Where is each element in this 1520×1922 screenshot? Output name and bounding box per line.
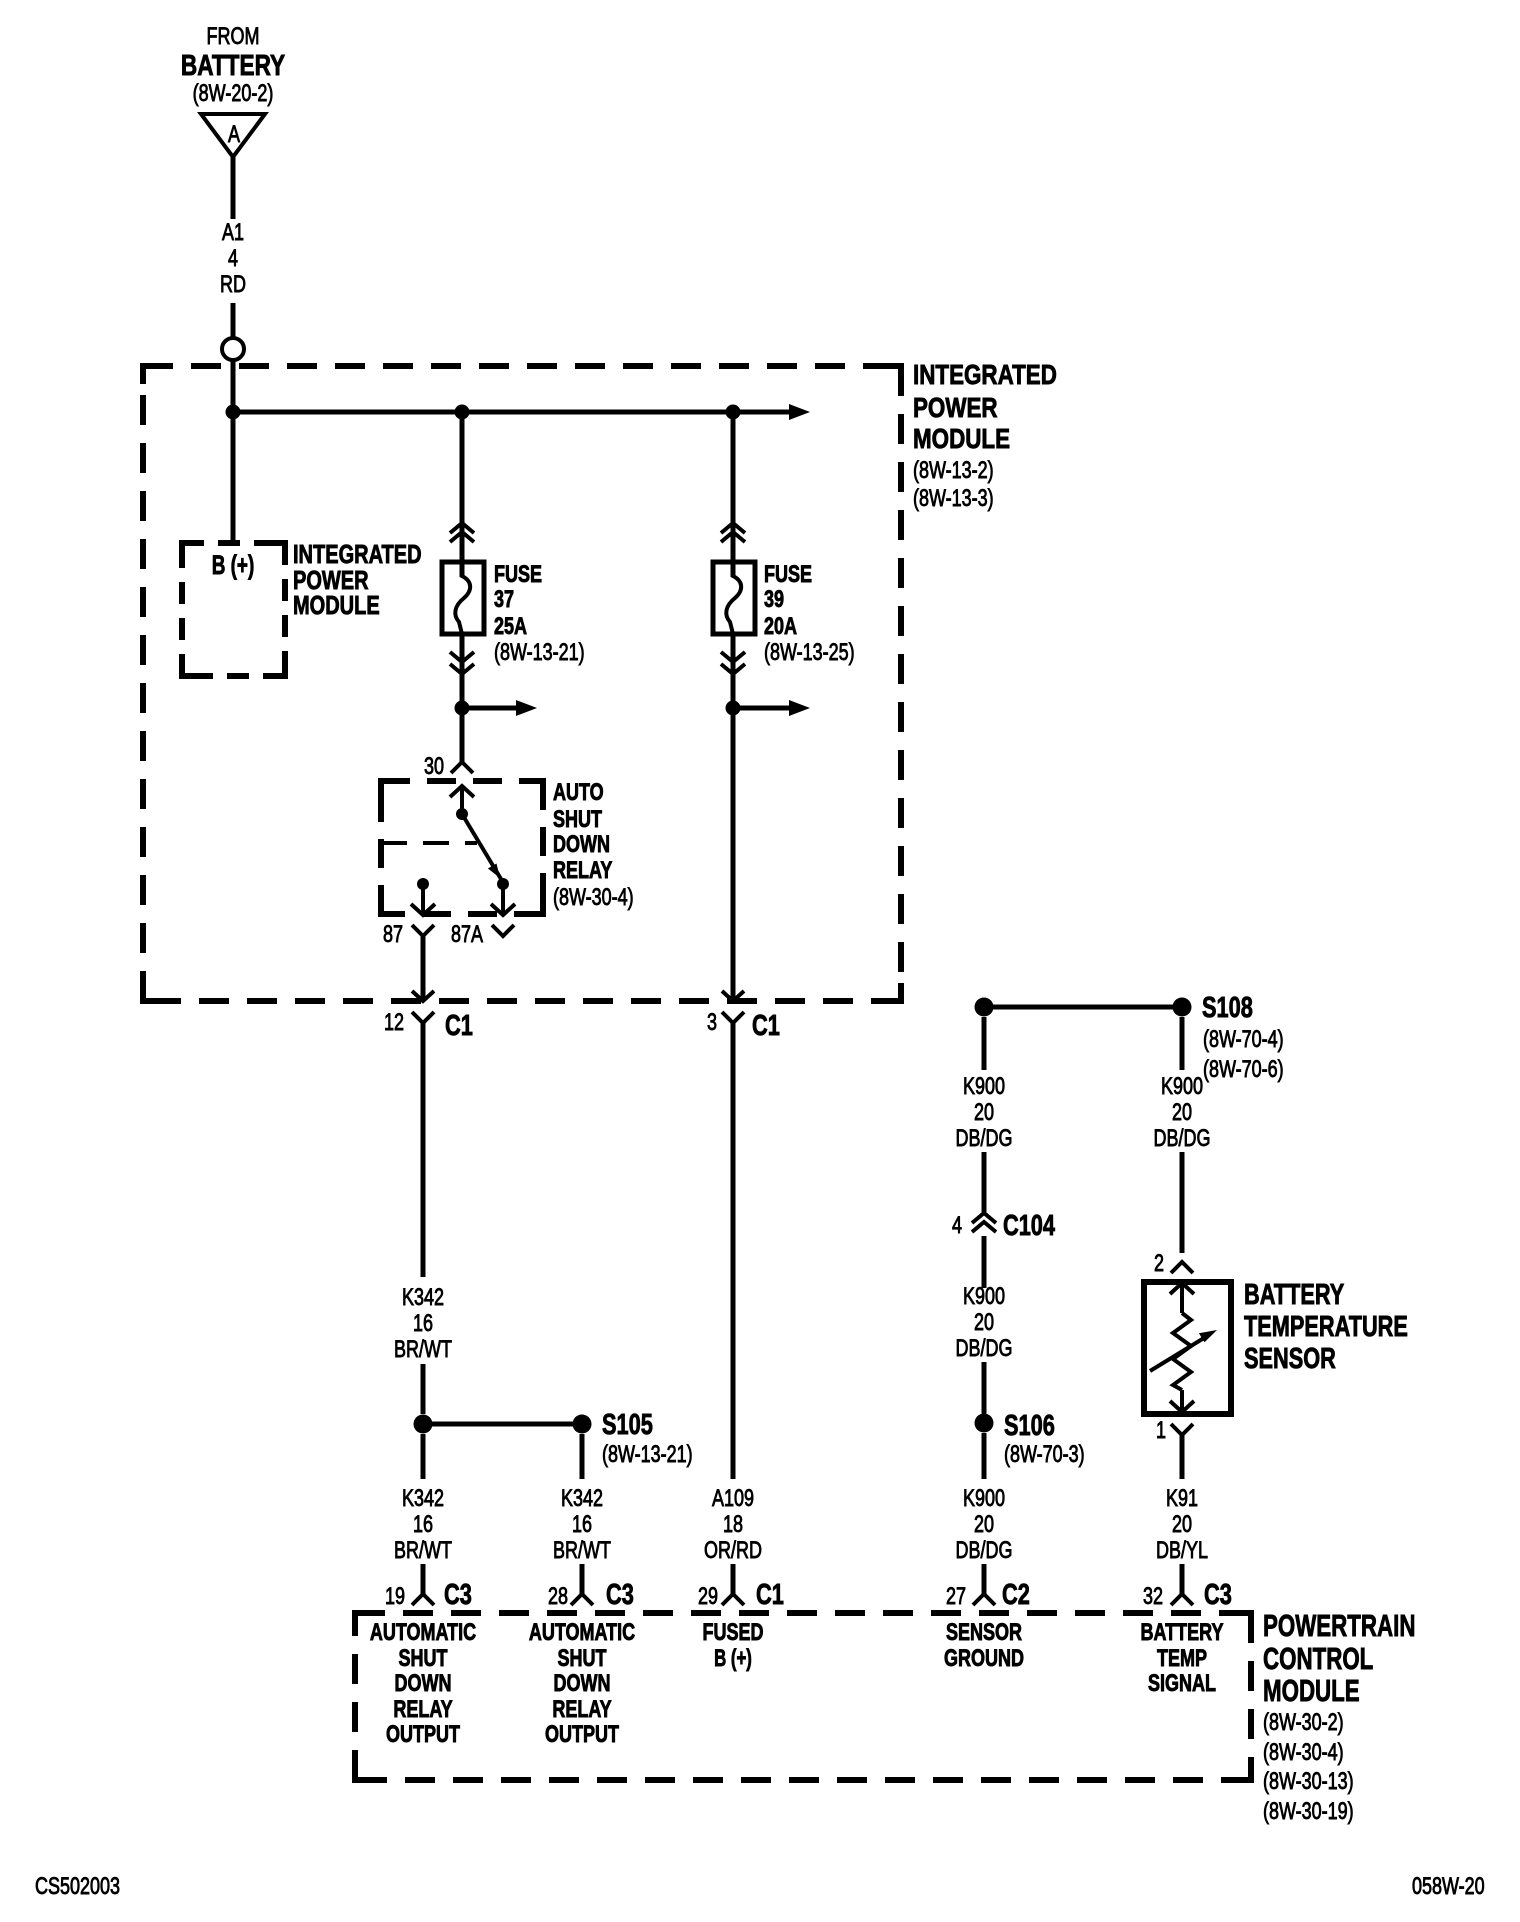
- svg-text:S105: S105: [602, 1409, 653, 1441]
- svg-text:RD: RD: [220, 272, 246, 298]
- svg-text:A1: A1: [222, 220, 244, 246]
- svg-text:(8W-13-3): (8W-13-3): [913, 486, 994, 512]
- svg-text:20: 20: [974, 1512, 994, 1538]
- svg-text:K900: K900: [963, 1284, 1005, 1310]
- svg-text:25A: 25A: [494, 614, 527, 640]
- svg-text:87: 87: [383, 922, 403, 948]
- svg-text:DB/DG: DB/DG: [1154, 1126, 1211, 1152]
- svg-text:DOWN: DOWN: [395, 1671, 452, 1697]
- svg-text:K342: K342: [561, 1486, 603, 1512]
- svg-text:OR/RD: OR/RD: [704, 1538, 762, 1564]
- svg-text:28: 28: [548, 1584, 568, 1610]
- svg-text:20: 20: [1172, 1512, 1192, 1538]
- svg-text:BATTERY: BATTERY: [1141, 1620, 1224, 1646]
- svg-text:S108: S108: [1202, 992, 1253, 1024]
- svg-text:BR/WT: BR/WT: [394, 1538, 452, 1564]
- svg-text:SIGNAL: SIGNAL: [1148, 1671, 1216, 1697]
- svg-text:29: 29: [698, 1584, 718, 1610]
- svg-text:K91: K91: [1166, 1486, 1198, 1512]
- svg-text:16: 16: [413, 1311, 433, 1337]
- svg-text:OUTPUT: OUTPUT: [386, 1722, 460, 1748]
- svg-text:C3: C3: [444, 1579, 472, 1611]
- svg-text:(8W-13-2): (8W-13-2): [913, 458, 994, 484]
- svg-text:TEMPERATURE: TEMPERATURE: [1244, 1311, 1408, 1343]
- svg-text:1: 1: [1156, 1418, 1166, 1444]
- svg-text:BR/WT: BR/WT: [553, 1538, 611, 1564]
- svg-text:(8W-30-2): (8W-30-2): [1263, 1710, 1344, 1736]
- svg-text:20: 20: [974, 1100, 994, 1126]
- svg-text:SHUT: SHUT: [553, 807, 602, 833]
- svg-text:(8W-13-21): (8W-13-21): [494, 640, 585, 666]
- svg-text:FUSE: FUSE: [494, 562, 542, 588]
- svg-text:K900: K900: [963, 1486, 1005, 1512]
- svg-text:4: 4: [952, 1213, 962, 1239]
- svg-text:CONTROL: CONTROL: [1263, 1641, 1373, 1675]
- svg-text:87A: 87A: [451, 922, 484, 948]
- svg-text:(8W-13-25): (8W-13-25): [764, 640, 855, 666]
- svg-text:39: 39: [764, 587, 784, 613]
- svg-text:C2: C2: [1002, 1579, 1030, 1611]
- svg-text:19: 19: [385, 1584, 405, 1610]
- svg-text:18: 18: [723, 1512, 743, 1538]
- svg-text:MODULE: MODULE: [913, 424, 1010, 455]
- svg-text:DOWN: DOWN: [554, 1671, 611, 1697]
- svg-text:MODULE: MODULE: [293, 590, 380, 619]
- svg-text:POWERTRAIN: POWERTRAIN: [1263, 1608, 1415, 1642]
- svg-text:16: 16: [572, 1512, 592, 1538]
- svg-text:C3: C3: [606, 1579, 634, 1611]
- svg-text:B (+): B (+): [714, 1645, 752, 1672]
- svg-text:GROUND: GROUND: [944, 1646, 1024, 1672]
- svg-text:37: 37: [494, 587, 514, 613]
- svg-text:(8W-30-13): (8W-30-13): [1263, 1769, 1354, 1795]
- svg-text:SENSOR: SENSOR: [946, 1620, 1022, 1646]
- svg-text:S106: S106: [1004, 1410, 1055, 1442]
- svg-text:058W-20: 058W-20: [1412, 1874, 1485, 1900]
- svg-text:(8W-20-2): (8W-20-2): [193, 81, 274, 107]
- svg-text:(8W-30-4): (8W-30-4): [553, 885, 634, 911]
- svg-text:A109: A109: [712, 1486, 754, 1512]
- svg-text:(8W-70-6): (8W-70-6): [1203, 1057, 1284, 1083]
- svg-text:DOWN: DOWN: [553, 832, 610, 858]
- svg-text:(8W-30-4): (8W-30-4): [1263, 1740, 1344, 1766]
- svg-text:K900: K900: [963, 1074, 1005, 1100]
- svg-text:C1: C1: [752, 1010, 780, 1042]
- svg-text:SHUT: SHUT: [558, 1646, 607, 1672]
- svg-text:SHUT: SHUT: [399, 1646, 448, 1672]
- svg-text:(8W-70-4): (8W-70-4): [1203, 1027, 1284, 1053]
- svg-text:(8W-13-21): (8W-13-21): [602, 1442, 693, 1468]
- svg-text:DB/DG: DB/DG: [956, 1538, 1013, 1564]
- svg-text:DB/DG: DB/DG: [956, 1336, 1013, 1362]
- svg-text:DB/DG: DB/DG: [956, 1126, 1013, 1152]
- svg-text:FROM: FROM: [207, 24, 260, 50]
- svg-text:20: 20: [1172, 1100, 1192, 1126]
- svg-text:POWER: POWER: [913, 393, 998, 424]
- svg-text:20A: 20A: [764, 614, 797, 640]
- svg-text:32: 32: [1143, 1584, 1163, 1610]
- svg-text:(8W-70-3): (8W-70-3): [1004, 1442, 1085, 1468]
- svg-text:12: 12: [384, 1010, 404, 1036]
- svg-text:A: A: [228, 122, 241, 148]
- svg-text:30: 30: [424, 754, 444, 780]
- svg-text:BR/WT: BR/WT: [394, 1337, 452, 1363]
- svg-text:27: 27: [946, 1584, 966, 1610]
- svg-text:BATTERY: BATTERY: [181, 48, 285, 81]
- svg-text:RELAY: RELAY: [553, 858, 612, 884]
- svg-text:FUSE: FUSE: [764, 562, 812, 588]
- svg-text:K900: K900: [1161, 1074, 1203, 1100]
- svg-text:INTEGRATED: INTEGRATED: [293, 539, 422, 568]
- svg-text:BATTERY: BATTERY: [1244, 1279, 1344, 1311]
- svg-text:AUTO: AUTO: [553, 780, 604, 806]
- svg-text:(8W-30-19): (8W-30-19): [1263, 1799, 1354, 1825]
- svg-text:3: 3: [707, 1010, 717, 1036]
- svg-text:AUTOMATIC: AUTOMATIC: [529, 1620, 635, 1646]
- svg-text:K342: K342: [402, 1285, 444, 1311]
- svg-text:4: 4: [228, 246, 238, 272]
- svg-text:RELAY: RELAY: [552, 1697, 611, 1723]
- svg-text:16: 16: [413, 1512, 433, 1538]
- svg-text:2: 2: [1154, 1251, 1164, 1277]
- svg-text:MODULE: MODULE: [1263, 1673, 1360, 1707]
- svg-text:FUSED: FUSED: [703, 1620, 764, 1646]
- svg-text:OUTPUT: OUTPUT: [545, 1722, 619, 1748]
- svg-text:AUTOMATIC: AUTOMATIC: [370, 1620, 476, 1646]
- svg-text:B (+): B (+): [212, 550, 255, 580]
- svg-text:C104: C104: [1003, 1210, 1056, 1242]
- svg-text:K342: K342: [402, 1486, 444, 1512]
- svg-text:20: 20: [974, 1310, 994, 1336]
- svg-text:C3: C3: [1204, 1579, 1232, 1611]
- svg-text:DB/YL: DB/YL: [1156, 1538, 1208, 1564]
- svg-text:C1: C1: [756, 1579, 784, 1611]
- svg-text:C1: C1: [445, 1010, 473, 1042]
- svg-text:INTEGRATED: INTEGRATED: [913, 360, 1057, 391]
- svg-text:TEMP: TEMP: [1157, 1646, 1207, 1672]
- svg-text:RELAY: RELAY: [393, 1697, 452, 1723]
- svg-text:SENSOR: SENSOR: [1244, 1343, 1336, 1375]
- svg-text:CS502003: CS502003: [35, 1874, 120, 1900]
